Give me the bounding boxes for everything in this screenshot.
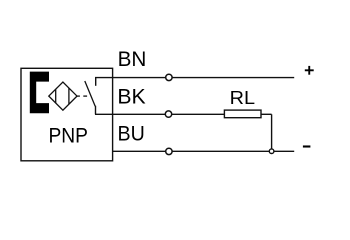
wire BU left segment <box>112 150 166 152</box>
wire BU middle segment <box>172 150 269 152</box>
diamond right chord <box>68 88 70 104</box>
junction node circle <box>269 149 274 154</box>
wire BK left segment <box>95 113 165 115</box>
wire BK segment circle to resistor <box>172 113 224 115</box>
switch lower contact stub <box>95 106 97 115</box>
dashed actuation link <box>76 95 87 97</box>
svg-text:RL: RL <box>230 87 255 108</box>
label BN <box>118 48 147 71</box>
label BU <box>118 123 145 146</box>
terminal circle BU <box>166 148 172 154</box>
terminal circle BK <box>165 111 171 117</box>
switch blade <box>85 81 95 106</box>
sensor body bracket (solid) <box>30 72 49 114</box>
proximity sensor diamond <box>49 82 77 110</box>
svg-text:BU: BU <box>118 123 145 146</box>
diamond left chord <box>55 89 57 103</box>
plus supply symbol <box>305 66 314 75</box>
svg-text:BN: BN <box>118 48 147 71</box>
wire resistor to corner <box>261 113 272 115</box>
wire BN right segment to plus <box>172 77 294 79</box>
wire BN left segment <box>95 77 166 79</box>
wire branch vertical drop <box>271 114 273 149</box>
svg-text:BK: BK <box>117 86 145 109</box>
label BK <box>117 86 145 109</box>
label RL <box>230 87 255 108</box>
minus supply symbol <box>303 145 311 147</box>
terminal circle BN <box>166 74 172 80</box>
sensor enclosure box <box>21 68 113 161</box>
resistor RL <box>224 110 261 118</box>
switch upper contact stub <box>95 78 97 86</box>
svg-text:PNP: PNP <box>49 125 89 148</box>
label PNP <box>49 125 89 148</box>
wire BU right segment to minus <box>274 150 294 152</box>
